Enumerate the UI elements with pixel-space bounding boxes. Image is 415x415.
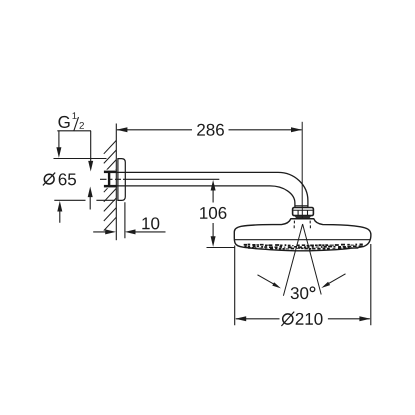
- text 30: [291, 287, 309, 299]
- diameter symbols drawn: [43, 173, 315, 326]
- O of O210: [283, 314, 293, 324]
- texts as paths: [58, 112, 322, 325]
- center extension line (286 right / head axis): [301, 122, 303, 224]
- text 2: [79, 122, 83, 129]
- hidden ball joint dashes: [294, 221, 310, 229]
- 30 degree spray lines: [283, 224, 321, 296]
- arrowheads: [56, 127, 370, 321]
- text 10: [142, 217, 159, 229]
- gasket below nut: [294, 216, 311, 218]
- thread bracket (pipe end in wall): [104, 171, 117, 188]
- white cover where pipe passes through wall: [100, 170, 118, 189]
- O65 up arrows: [57, 201, 62, 212]
- nut: [293, 208, 314, 216]
- 106 arrows: [211, 180, 216, 191]
- text 210: [296, 313, 323, 325]
- centerline of arm / 106 reference line: [100, 178, 219, 180]
- rim line: [235, 239, 371, 241]
- 10 arrows: [105, 229, 116, 234]
- text 106: [200, 207, 226, 219]
- O210 arrows: [235, 316, 246, 321]
- wall hatching: [104, 140, 117, 230]
- text 65: [59, 173, 76, 185]
- wall line: [115, 124, 117, 241]
- shower arm outline: [110, 172, 308, 207]
- spray face stipple: [244, 244, 363, 249]
- text G: [58, 116, 69, 128]
- shower head body: [234, 219, 371, 251]
- text 286: [197, 124, 224, 136]
- G1/2 leaders down: [56, 147, 61, 158]
- text 1: [73, 112, 77, 119]
- angle arrows: [258, 275, 278, 286]
- escutcheon flange: [118, 159, 125, 201]
- degree mark of 30: [310, 287, 315, 292]
- pipe joint line above nut: [295, 205, 308, 207]
- collar top emphasized: [291, 218, 314, 220]
- O of O65: [44, 174, 54, 184]
- angle arrows heads: [272, 282, 281, 288]
- 286 left / right: [116, 127, 127, 132]
